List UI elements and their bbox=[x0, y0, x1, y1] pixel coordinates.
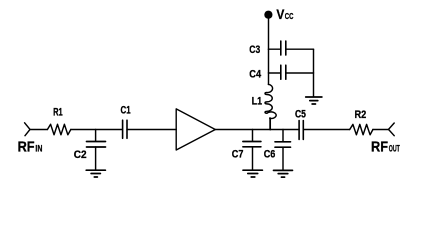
wire C5 to R2 bbox=[303, 129, 349, 131]
resistor R2 bbox=[350, 124, 373, 134]
label RFOUT bbox=[371, 138, 400, 155]
svg-text:RF: RF bbox=[371, 138, 388, 155]
label R2 bbox=[355, 109, 367, 121]
label C3 bbox=[249, 44, 260, 56]
inductor L1 bbox=[265, 84, 276, 130]
svg-text:RF: RF bbox=[18, 138, 35, 155]
label VCC bbox=[276, 6, 293, 22]
node C7 junction bbox=[252, 130, 254, 142]
port RFOUT bbox=[389, 123, 395, 136]
svg-text:L1: L1 bbox=[252, 96, 263, 108]
wire C1 to amplifier bbox=[127, 129, 176, 131]
svg-text:R1: R1 bbox=[53, 107, 63, 119]
svg-text:R2: R2 bbox=[355, 109, 367, 121]
ground under C6 bbox=[274, 170, 293, 177]
resistor R1 bbox=[47, 124, 70, 135]
ground right rail bbox=[306, 97, 322, 104]
wire C2 to ground bbox=[95, 147, 97, 170]
label R1 bbox=[53, 107, 63, 119]
svg-text:CC: CC bbox=[285, 11, 294, 21]
capacitor C4 bbox=[281, 65, 286, 79]
svg-text:C3: C3 bbox=[249, 44, 260, 56]
node C6 junction bbox=[282, 130, 284, 142]
label C2 bbox=[74, 149, 87, 161]
svg-text:OUT: OUT bbox=[389, 143, 400, 154]
node C4 junction bbox=[269, 72, 281, 74]
node C3 junction bbox=[269, 48, 281, 50]
wire C7 to ground bbox=[252, 147, 254, 170]
wire right rail down bbox=[313, 49, 315, 96]
wire RFIN to R1 bbox=[30, 129, 47, 131]
svg-text:C5: C5 bbox=[295, 109, 306, 121]
svg-text:IN: IN bbox=[35, 143, 42, 154]
capacitor C7 bbox=[243, 142, 261, 147]
svg-text:C7: C7 bbox=[232, 149, 244, 161]
svg-text:C6: C6 bbox=[264, 149, 276, 161]
svg-text:V: V bbox=[276, 6, 285, 22]
capacitor C5 bbox=[299, 121, 303, 140]
capacitor C2 bbox=[87, 142, 106, 148]
label L1 bbox=[252, 96, 263, 108]
power VCC terminal dot bbox=[264, 11, 272, 19]
label C7 bbox=[232, 149, 244, 161]
port RFIN bbox=[25, 123, 30, 136]
wire R2 to RFOUT bbox=[373, 129, 389, 131]
wire amplifier to C5 bbox=[215, 129, 299, 131]
label C6 bbox=[264, 149, 276, 161]
svg-text:C2: C2 bbox=[74, 149, 87, 161]
node C2 junction bbox=[95, 130, 97, 142]
ground under C2 bbox=[86, 170, 105, 177]
label C1 bbox=[121, 105, 131, 117]
wire C3 to right rail bbox=[286, 48, 314, 50]
wire C4 to L1 top bbox=[268, 73, 270, 85]
svg-text:C4: C4 bbox=[249, 68, 261, 80]
svg-text:C1: C1 bbox=[121, 105, 131, 117]
ground under C7 bbox=[243, 170, 262, 177]
wire VCC C3 to C4 bbox=[268, 49, 270, 73]
capacitor C3 bbox=[281, 41, 286, 55]
node L1 junction bbox=[269, 118, 271, 130]
capacitor C1 bbox=[123, 120, 127, 138]
wire R1 to C1 bbox=[71, 129, 122, 131]
wire VCC down bbox=[268, 18, 270, 49]
label RFIN bbox=[18, 138, 43, 155]
capacitor C6 bbox=[275, 142, 291, 147]
wire C4 to right rail bbox=[286, 72, 314, 74]
label C4 bbox=[249, 68, 261, 80]
op-amp U1 amplifier bbox=[176, 109, 215, 150]
label C5 bbox=[295, 109, 306, 121]
wire C6 to ground bbox=[282, 147, 284, 170]
